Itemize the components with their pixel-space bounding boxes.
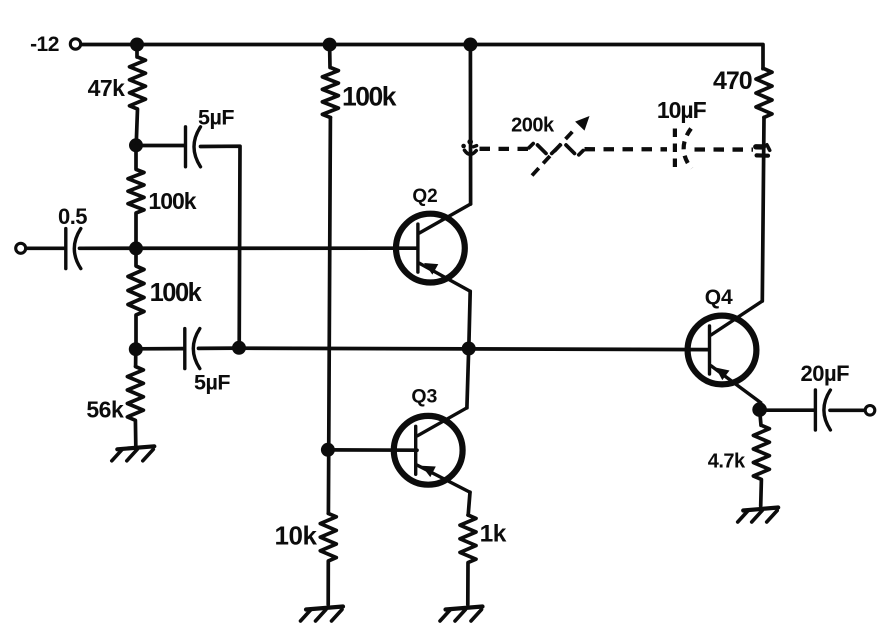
svg-text:4.7k: 4.7k (708, 451, 746, 473)
resistor R 1k (460, 515, 476, 605)
svg-text:Q3: Q3 (411, 386, 437, 408)
dashed tap on 470 / Q4 collector wire (756, 145, 770, 156)
svg-text:56k: 56k (86, 397, 124, 423)
wire top rail (82, 45, 764, 69)
terminal output (865, 406, 875, 416)
wire 5uF lower to junction (199, 346, 240, 350)
variable resistor 200k (dashed) (529, 116, 590, 176)
wire to 5uF lower (136, 347, 183, 351)
terminal -12 supply (70, 39, 80, 49)
svg-text:1k: 1k (480, 521, 507, 548)
wire middle column down (328, 118, 330, 514)
svg-text:100k: 100k (342, 82, 397, 112)
transistor Q3 (PNP) (394, 408, 470, 492)
dashed tap on Q2 collector wire (461, 139, 476, 154)
capacitor C 10uF (dashed) (675, 129, 692, 169)
wire mid bus to Q4 base (239, 348, 709, 349)
terminal input (16, 243, 26, 253)
wire Q2 emitter to mid bus (469, 291, 470, 348)
junction top rail / 100k middle (323, 38, 337, 52)
resistor R 100k upper-left (128, 145, 144, 248)
svg-text:Q2: Q2 (412, 186, 437, 207)
capacitor C 5uF upper (186, 127, 201, 167)
capacitor C 5uF lower (185, 329, 200, 369)
svg-text:Q4: Q4 (705, 286, 733, 309)
resistor R 100k middle (322, 45, 338, 118)
junction 100k / 56k / 5uF lower (129, 342, 143, 356)
wire Q2 collector to top rail (469, 45, 473, 205)
dashed feedback wire right (695, 147, 754, 151)
junction Q3 base / 10k (321, 443, 335, 457)
wire Q3 collector to mid bus (467, 349, 469, 408)
dashed feedback wire middle (585, 147, 668, 151)
wire Q3 emitter down (468, 492, 470, 515)
svg-text:200k: 200k (511, 115, 555, 137)
svg-text:20µF: 20µF (801, 361, 850, 386)
resistor R 100k lower-left (128, 248, 144, 349)
svg-text:5µF: 5µF (198, 106, 234, 130)
junction 5uF lower / feedback wire (232, 341, 246, 355)
wire feedback 5uF upper to lower node (201, 146, 241, 347)
resistor R 47k (130, 45, 146, 146)
transistor Q4 (PNP) (688, 301, 763, 409)
ground under 4.7k (738, 508, 779, 523)
wire Q3 base (328, 448, 417, 452)
resistor R 10k (320, 513, 336, 604)
junction 47k / 100k / 5uF upper (129, 138, 143, 152)
svg-text:10k: 10k (275, 521, 318, 551)
capacitor C 0.5 input (66, 229, 81, 269)
ground under 10k (301, 607, 344, 622)
wire input row to Q2 base (80, 246, 418, 250)
resistor R 56k (127, 349, 143, 446)
junction top rail / 47k (130, 38, 144, 52)
svg-text:5µF: 5µF (194, 371, 230, 395)
svg-text:-12: -12 (30, 33, 59, 56)
ground under 1k (440, 607, 483, 622)
svg-text:47k: 47k (88, 75, 126, 101)
wire Q4 collector (762, 117, 764, 301)
svg-text:100k: 100k (150, 279, 203, 307)
junction top rail / Q2 collector (463, 38, 477, 52)
capacitor C 20uF (815, 390, 830, 430)
junction input row / 100k pair (129, 241, 143, 255)
wire to 20uF (760, 408, 814, 412)
junction Q4 emitter / 4.7k / 20uF (752, 402, 767, 417)
svg-text:0.5: 0.5 (58, 204, 87, 229)
ground under 56k (112, 446, 155, 461)
dashed feedback wire left (480, 147, 529, 151)
wire to 5uF upper (136, 144, 184, 148)
resistor R 470 (756, 69, 772, 118)
wire input to C 0.5 (26, 246, 65, 250)
transistor Q2 (PNP) (396, 204, 471, 291)
junction mid bus / Q2 emitter / Q3 collector (462, 342, 476, 356)
svg-text:10µF: 10µF (657, 97, 707, 123)
resistor R 4.7k (753, 410, 769, 506)
svg-text:470: 470 (713, 67, 752, 95)
wire 20uF to output (830, 408, 865, 412)
svg-text:100k: 100k (148, 188, 196, 214)
